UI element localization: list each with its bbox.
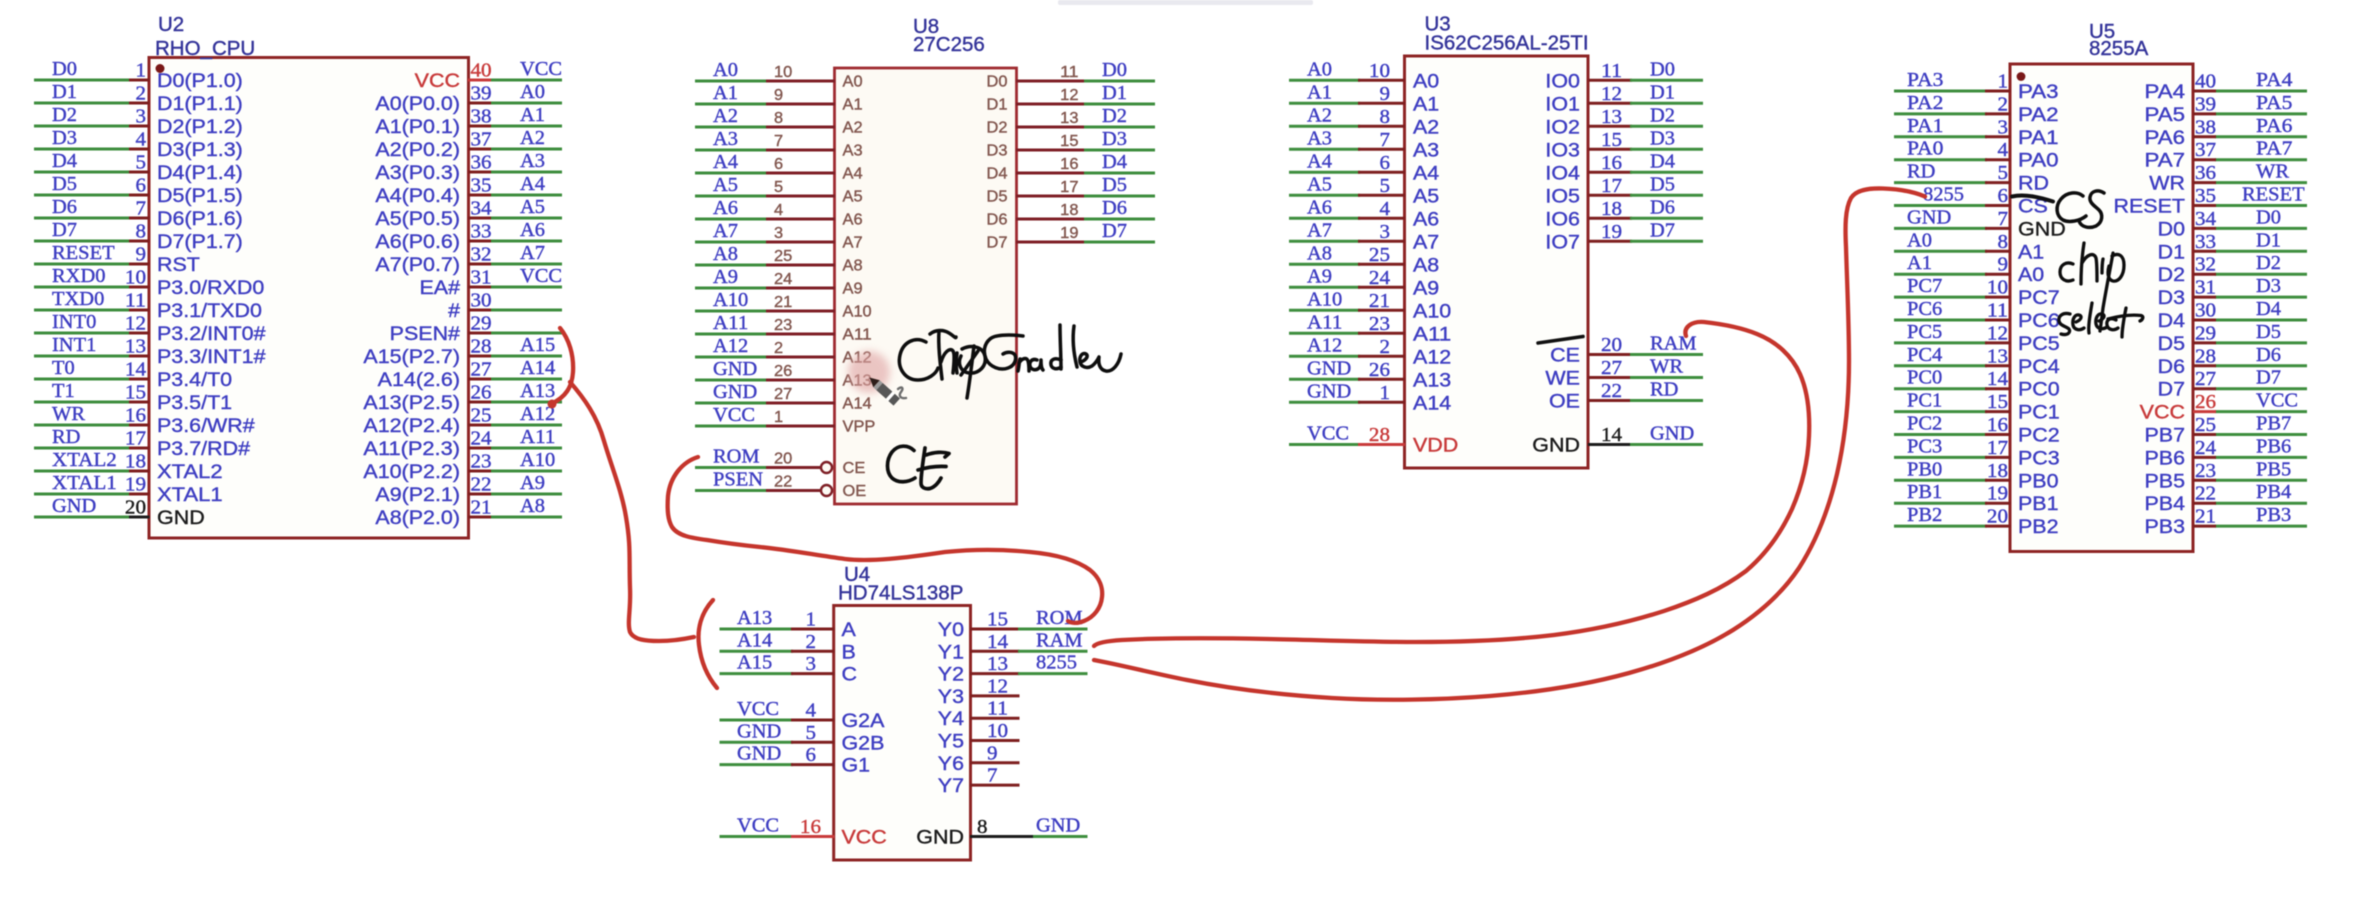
svg-text:PA6: PA6 [2145, 127, 2186, 149]
svg-text:18: 18 [125, 452, 146, 473]
svg-text:D5: D5 [987, 189, 1008, 206]
svg-text:31: 31 [471, 268, 492, 289]
svg-text:PA7: PA7 [2145, 150, 2186, 172]
svg-text:A14(2.6): A14(2.6) [378, 369, 460, 391]
svg-text:PA6: PA6 [2256, 116, 2293, 137]
svg-text:PC7: PC7 [1907, 276, 1943, 297]
svg-text:A1: A1 [843, 97, 863, 114]
svg-text:D3: D3 [1650, 128, 1675, 149]
svg-text:A1: A1 [1907, 253, 1932, 274]
svg-text:IO4: IO4 [1545, 162, 1580, 184]
svg-text:PA5: PA5 [2256, 93, 2292, 114]
svg-text:18: 18 [1601, 199, 1622, 220]
svg-text:VCC: VCC [737, 699, 779, 720]
svg-text:16: 16 [800, 817, 821, 838]
svg-text:A6: A6 [1307, 197, 1332, 218]
svg-text:PC4: PC4 [1907, 345, 1943, 366]
svg-text:INT0: INT0 [52, 312, 96, 333]
svg-text:D0: D0 [52, 59, 77, 80]
svg-text:A9(P2.1): A9(P2.1) [375, 484, 460, 506]
svg-text:A10: A10 [1307, 289, 1342, 310]
svg-text:10: 10 [774, 64, 793, 81]
svg-text:11: 11 [125, 291, 146, 312]
svg-text:A10: A10 [843, 304, 873, 321]
svg-text:A0: A0 [1413, 70, 1439, 92]
svg-text:2: 2 [806, 632, 817, 653]
svg-text:A9: A9 [520, 473, 545, 494]
svg-text:Y3: Y3 [938, 686, 964, 708]
svg-text:Y0: Y0 [938, 619, 964, 641]
svg-text:IO0: IO0 [1545, 70, 1580, 92]
svg-text:23: 23 [774, 317, 792, 334]
svg-text:P3.2/INT0#: P3.2/INT0# [157, 323, 266, 345]
svg-text:PB7: PB7 [2256, 414, 2292, 435]
svg-text:P3.4/T0: P3.4/T0 [157, 369, 232, 391]
svg-text:RAM: RAM [1650, 334, 1697, 355]
svg-text:A0: A0 [2018, 264, 2044, 286]
svg-text:A1: A1 [1307, 82, 1332, 103]
svg-text:IO1: IO1 [1545, 93, 1580, 115]
svg-text:29: 29 [471, 314, 492, 335]
svg-text:A0: A0 [1907, 230, 1932, 251]
svg-text:P3.1/TXD0: P3.1/TXD0 [157, 300, 262, 322]
svg-text:VDD: VDD [1413, 435, 1458, 457]
svg-text:26: 26 [471, 383, 492, 404]
svg-text:PB3: PB3 [2256, 505, 2291, 526]
svg-text:A1: A1 [2018, 241, 2044, 263]
svg-text:21: 21 [471, 498, 492, 519]
svg-text:RD: RD [1907, 162, 1935, 183]
svg-text:CE: CE [843, 460, 866, 477]
svg-text:35: 35 [2195, 186, 2216, 207]
svg-text:D2(P1.2): D2(P1.2) [157, 116, 243, 138]
svg-text:U2: U2 [158, 13, 184, 36]
svg-text:A0: A0 [1307, 59, 1332, 80]
svg-text:D2: D2 [987, 120, 1008, 137]
svg-text:A7: A7 [713, 221, 738, 242]
svg-text:IO2: IO2 [1545, 116, 1580, 138]
svg-text:22: 22 [1601, 381, 1622, 402]
svg-text:10: 10 [125, 268, 146, 289]
svg-text:PB1: PB1 [1907, 482, 1942, 503]
svg-text:Y1: Y1 [938, 641, 964, 663]
svg-text:IO6: IO6 [1545, 208, 1580, 230]
svg-text:P3.0/RXD0: P3.0/RXD0 [157, 277, 264, 299]
svg-text:40: 40 [471, 61, 492, 82]
svg-text:D6: D6 [52, 197, 77, 218]
svg-text:PA4: PA4 [2256, 70, 2293, 91]
svg-text:D0: D0 [987, 74, 1008, 91]
svg-text:A10(P2.2): A10(P2.2) [363, 461, 460, 483]
svg-text:12: 12 [1987, 323, 2008, 344]
svg-text:23: 23 [471, 452, 492, 473]
svg-text:VCC: VCC [737, 816, 779, 837]
svg-text:GND: GND [737, 721, 781, 742]
svg-text:D6: D6 [1650, 197, 1675, 218]
svg-text:A2: A2 [1413, 116, 1439, 138]
svg-text:A10: A10 [713, 290, 748, 311]
svg-text:A2: A2 [843, 120, 863, 137]
svg-text:A11: A11 [1307, 312, 1342, 333]
svg-text:IO5: IO5 [1545, 185, 1580, 207]
svg-text:8: 8 [977, 817, 988, 838]
svg-text:19: 19 [1060, 225, 1078, 242]
svg-text:A12: A12 [1413, 346, 1451, 368]
svg-text:1: 1 [774, 409, 783, 426]
svg-text:D7(P1.7): D7(P1.7) [157, 231, 243, 253]
svg-text:D1: D1 [987, 97, 1008, 114]
svg-text:PB0: PB0 [2018, 470, 2059, 492]
svg-text:PB3: PB3 [2145, 516, 2186, 538]
svg-text:D0: D0 [1650, 59, 1675, 80]
svg-text:A14: A14 [843, 396, 873, 413]
svg-text:21: 21 [2195, 507, 2216, 528]
svg-text:VCC: VCC [520, 266, 562, 287]
svg-text:EA#: EA# [420, 277, 461, 299]
svg-text:17: 17 [1601, 176, 1622, 197]
svg-text:PC1: PC1 [1907, 391, 1942, 412]
svg-text:RESET: RESET [2242, 185, 2305, 206]
svg-text:11: 11 [987, 699, 1008, 720]
svg-text:5: 5 [774, 179, 783, 196]
svg-text:A0(P0.0): A0(P0.0) [375, 93, 460, 115]
svg-text:GND: GND [713, 359, 757, 380]
svg-text:D5(P1.5): D5(P1.5) [157, 185, 243, 207]
svg-text:GND: GND [713, 382, 757, 403]
svg-text:XTAL2: XTAL2 [157, 461, 223, 483]
svg-text:33: 33 [2195, 232, 2216, 253]
svg-text:D5: D5 [1650, 174, 1675, 195]
svg-text:D3: D3 [2256, 276, 2281, 297]
svg-text:A1: A1 [713, 83, 738, 104]
svg-text:PSEN#: PSEN# [390, 323, 460, 345]
svg-text:T0: T0 [52, 358, 75, 379]
svg-text:13: 13 [125, 337, 146, 358]
svg-text:5: 5 [1998, 163, 2009, 184]
svg-text:5: 5 [1380, 176, 1391, 197]
svg-text:A3: A3 [713, 129, 738, 150]
svg-text:D0(P1.0): D0(P1.0) [157, 70, 243, 92]
svg-text:27: 27 [471, 360, 492, 381]
svg-text:36: 36 [471, 153, 492, 174]
svg-text:4: 4 [806, 701, 817, 722]
svg-text:A1: A1 [520, 105, 545, 126]
svg-text:RD: RD [2018, 173, 2049, 195]
svg-text:D0: D0 [2158, 218, 2186, 240]
svg-text:27: 27 [774, 386, 792, 403]
svg-text:VCC: VCC [1307, 424, 1349, 445]
svg-text:7: 7 [987, 766, 998, 787]
svg-text:Y7: Y7 [938, 775, 964, 797]
svg-text:A3: A3 [520, 151, 545, 172]
svg-text:A15(P2.7): A15(P2.7) [363, 346, 460, 368]
svg-text:D7: D7 [1102, 221, 1127, 242]
svg-text:A7: A7 [520, 243, 545, 264]
svg-text:PC3: PC3 [1907, 436, 1942, 457]
svg-text:PB6: PB6 [2256, 436, 2292, 457]
svg-text:A5: A5 [1413, 185, 1439, 207]
svg-text:A7: A7 [1413, 231, 1439, 253]
svg-text:C: C [842, 664, 858, 686]
svg-text:A8: A8 [520, 496, 545, 517]
svg-text:VCC: VCC [842, 827, 887, 849]
svg-text:VCC: VCC [520, 59, 562, 80]
svg-text:PB1: PB1 [2018, 493, 2059, 515]
svg-text:A7: A7 [1307, 220, 1332, 241]
svg-text:A12: A12 [713, 336, 748, 357]
svg-text:PA2: PA2 [2018, 104, 2059, 126]
svg-text:T1: T1 [52, 381, 75, 402]
svg-text:11: 11 [1987, 301, 2008, 322]
svg-text:OE: OE [843, 483, 867, 500]
svg-text:A5: A5 [1307, 174, 1332, 195]
svg-text:A14: A14 [1413, 392, 1451, 414]
svg-text:PC1: PC1 [2018, 402, 2060, 424]
svg-text:A5(P0.5): A5(P0.5) [375, 208, 460, 230]
svg-text:A13(P2.5): A13(P2.5) [363, 392, 460, 414]
svg-text:WR: WR [52, 404, 85, 425]
svg-text:Y2: Y2 [938, 664, 964, 686]
svg-text:D6: D6 [987, 212, 1008, 229]
svg-text:GND: GND [1307, 358, 1351, 379]
svg-text:Y6: Y6 [938, 753, 964, 775]
svg-text:A4: A4 [520, 174, 545, 195]
svg-text:A4(P0.4): A4(P0.4) [375, 185, 460, 207]
svg-text:28: 28 [1369, 425, 1390, 446]
svg-text:A: A [842, 619, 856, 641]
svg-text:13: 13 [1987, 346, 2008, 367]
svg-text:PB7: PB7 [2145, 425, 2186, 447]
svg-text:16: 16 [1987, 415, 2008, 436]
svg-text:D6: D6 [2158, 356, 2185, 378]
svg-text:25: 25 [1369, 245, 1390, 266]
svg-text:8: 8 [774, 110, 783, 127]
svg-text:D0: D0 [1102, 60, 1127, 81]
svg-text:9: 9 [1380, 84, 1391, 105]
svg-text:A1(P0.1): A1(P0.1) [375, 116, 460, 138]
svg-text:A8: A8 [1307, 243, 1332, 264]
svg-text:22: 22 [774, 474, 792, 491]
svg-text:3: 3 [774, 225, 783, 242]
svg-text:13: 13 [987, 654, 1008, 675]
svg-text:36: 36 [2195, 163, 2216, 184]
svg-text:A0: A0 [520, 82, 545, 103]
svg-text:A2: A2 [520, 128, 545, 149]
svg-text:A3(P0.3): A3(P0.3) [375, 162, 460, 184]
svg-text:13: 13 [1601, 107, 1622, 128]
svg-text:VCC: VCC [2140, 402, 2185, 424]
svg-text:33: 33 [471, 222, 492, 243]
svg-text:D2: D2 [2158, 264, 2185, 286]
svg-text:7: 7 [1998, 209, 2009, 230]
svg-text:PA3: PA3 [2018, 81, 2059, 103]
svg-text:21: 21 [1369, 291, 1390, 312]
svg-text:4: 4 [774, 202, 783, 219]
svg-text:PB2: PB2 [1907, 505, 1942, 526]
svg-text:18: 18 [1060, 202, 1078, 219]
svg-text:32: 32 [2195, 255, 2216, 276]
svg-text:PA4: PA4 [2145, 81, 2186, 103]
svg-text:8255A: 8255A [2089, 37, 2149, 60]
svg-text:PB5: PB5 [2145, 470, 2186, 492]
svg-text:A8: A8 [843, 258, 863, 275]
svg-text:RESET: RESET [2114, 196, 2186, 218]
svg-text:D2: D2 [1650, 105, 1675, 126]
svg-text:4: 4 [1998, 140, 2009, 161]
svg-text:D7: D7 [52, 220, 77, 241]
svg-text:PB5: PB5 [2256, 459, 2291, 480]
svg-text:PA0: PA0 [1907, 139, 1943, 160]
svg-text:IS62C256AL-25TI: IS62C256AL-25TI [1425, 32, 1589, 55]
svg-text:A9: A9 [843, 281, 863, 298]
svg-text:D1: D1 [2256, 230, 2281, 251]
svg-text:6: 6 [774, 156, 783, 173]
svg-text:D3: D3 [2158, 287, 2185, 309]
svg-text:RST: RST [157, 254, 200, 276]
svg-text:31: 31 [2195, 278, 2216, 299]
svg-text:GND: GND [916, 827, 964, 849]
svg-text:3: 3 [806, 654, 817, 675]
svg-text:25: 25 [2195, 415, 2216, 436]
svg-text:PC0: PC0 [2018, 379, 2060, 401]
svg-text:A11(P2.3): A11(P2.3) [363, 438, 460, 460]
svg-text:PC2: PC2 [2018, 425, 2060, 447]
svg-text:PA7: PA7 [2256, 139, 2293, 160]
svg-text:IO3: IO3 [1545, 139, 1580, 161]
svg-text:16: 16 [1601, 153, 1622, 174]
svg-text:PC6: PC6 [1907, 299, 1943, 320]
svg-text:A13: A13 [737, 608, 772, 629]
svg-text:29: 29 [2195, 323, 2216, 344]
svg-text:21: 21 [774, 294, 792, 311]
svg-text:1: 1 [1998, 72, 2009, 93]
svg-text:22: 22 [2195, 484, 2216, 505]
svg-text:9: 9 [136, 245, 147, 266]
svg-text:ROM: ROM [1036, 608, 1083, 629]
svg-text:D5: D5 [1102, 175, 1127, 196]
svg-text:D3: D3 [1102, 129, 1127, 150]
svg-text:19: 19 [1601, 222, 1622, 243]
svg-text:VCC: VCC [415, 70, 460, 92]
svg-text:CE: CE [1550, 345, 1580, 367]
svg-text:10: 10 [1987, 278, 2008, 299]
svg-text:9: 9 [987, 743, 998, 764]
svg-text:RESET: RESET [52, 243, 115, 264]
svg-text:GND: GND [1307, 381, 1351, 402]
svg-text:A6(P0.6): A6(P0.6) [375, 231, 460, 253]
svg-text:D5: D5 [52, 174, 77, 195]
svg-text:D7: D7 [2256, 368, 2281, 389]
svg-text:IO7: IO7 [1545, 231, 1580, 253]
svg-text:A4: A4 [1307, 151, 1332, 172]
svg-text:PA1: PA1 [1907, 116, 1943, 137]
svg-text:26: 26 [2195, 392, 2216, 413]
svg-text:24: 24 [1369, 268, 1390, 289]
svg-text:PB4: PB4 [2145, 493, 2186, 515]
svg-text:WE: WE [1545, 368, 1580, 390]
svg-text:25: 25 [774, 248, 792, 265]
svg-text:A10: A10 [1413, 300, 1451, 322]
svg-text:D4: D4 [1650, 151, 1675, 172]
svg-text:A11: A11 [713, 313, 748, 334]
svg-text:A2: A2 [1307, 105, 1332, 126]
svg-text:A6: A6 [520, 220, 545, 241]
svg-text:D4: D4 [987, 166, 1008, 183]
svg-text:A9: A9 [1413, 277, 1439, 299]
svg-text:7: 7 [136, 199, 147, 220]
svg-text:A6: A6 [713, 198, 738, 219]
svg-text:3: 3 [136, 107, 147, 128]
svg-text:24: 24 [471, 429, 492, 450]
svg-text:A4: A4 [843, 166, 863, 183]
svg-text:A3: A3 [1307, 128, 1332, 149]
svg-text:GND: GND [1532, 435, 1580, 457]
svg-text:30: 30 [471, 291, 492, 312]
svg-text:D2: D2 [52, 105, 77, 126]
svg-text:15: 15 [125, 383, 146, 404]
svg-text:14: 14 [987, 632, 1008, 653]
svg-text:16: 16 [125, 406, 146, 427]
svg-text:PB0: PB0 [1907, 459, 1942, 480]
svg-text:PC2: PC2 [1907, 414, 1942, 435]
svg-text:17: 17 [125, 429, 146, 450]
svg-text:A4: A4 [1413, 162, 1439, 184]
svg-text:22: 22 [471, 475, 492, 496]
svg-text:A9: A9 [1307, 266, 1332, 287]
svg-text:D6(P1.6): D6(P1.6) [157, 208, 243, 230]
svg-text:XTAL2: XTAL2 [52, 450, 117, 471]
svg-text:PC5: PC5 [1907, 322, 1942, 343]
svg-text:A11: A11 [1413, 323, 1451, 345]
svg-text:3: 3 [1998, 117, 2009, 138]
svg-text:7: 7 [1380, 130, 1391, 151]
svg-text:D1: D1 [52, 82, 77, 103]
svg-text:13: 13 [1060, 110, 1078, 127]
svg-text:11: 11 [1060, 64, 1078, 81]
svg-text:2: 2 [1380, 337, 1391, 358]
svg-text:D3(P1.3): D3(P1.3) [157, 139, 243, 161]
svg-text:G2A: G2A [842, 710, 885, 732]
svg-text:D4: D4 [2256, 299, 2281, 320]
svg-text:A7: A7 [843, 235, 863, 252]
svg-text:20: 20 [125, 498, 146, 519]
svg-text:14: 14 [1987, 369, 2008, 390]
svg-text:XTAL1: XTAL1 [52, 473, 117, 494]
svg-text:17: 17 [1060, 179, 1078, 196]
svg-text:10: 10 [987, 721, 1008, 742]
svg-text:VCC: VCC [2256, 391, 2298, 412]
svg-text:A1: A1 [1413, 93, 1439, 115]
svg-text:XTAL1: XTAL1 [157, 484, 223, 506]
svg-text:D4: D4 [52, 151, 77, 172]
svg-text:1: 1 [806, 610, 817, 631]
svg-text:28: 28 [2195, 346, 2216, 367]
svg-text:34: 34 [2195, 209, 2216, 230]
svg-text:D1: D1 [2158, 241, 2185, 263]
svg-text:ROM: ROM [713, 447, 760, 468]
svg-text:32: 32 [471, 245, 492, 266]
svg-text:P3.5/T1: P3.5/T1 [157, 392, 232, 414]
svg-text:PA3: PA3 [1907, 70, 1943, 91]
svg-text:2: 2 [1998, 94, 2009, 115]
svg-text:38: 38 [2195, 117, 2216, 138]
svg-text:D1: D1 [1650, 82, 1675, 103]
svg-text:2: 2 [136, 84, 147, 105]
svg-text:5: 5 [136, 153, 147, 174]
svg-text:RD: RD [1650, 380, 1678, 401]
svg-text:17: 17 [1987, 438, 2008, 459]
svg-text:4: 4 [1380, 199, 1391, 220]
